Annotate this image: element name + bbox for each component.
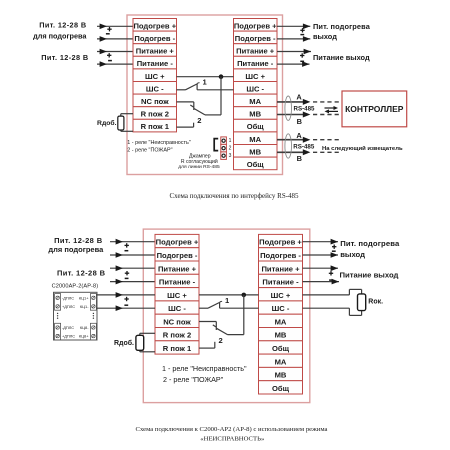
svg-text:Общ: Общ (272, 384, 290, 393)
svg-text:Питание +: Питание + (136, 47, 175, 56)
svg-text:Общ: Общ (272, 344, 290, 353)
wire AR2 to ШС+ (bottom) (96, 294, 155, 296)
svg-text:Подогрев +: Подогрев + (156, 238, 199, 247)
svg-text:Общ: Общ (247, 160, 265, 169)
input wire: heater power - (bottom) (110, 254, 155, 256)
twisted pair loop 2 (285, 134, 292, 158)
svg-text:Схема подключения по интерфейс: Схема подключения по интерфейсу RS-485 (169, 192, 299, 200)
RS-485 line B to controller (277, 114, 304, 116)
AR2 terminal screws row 2 (56, 305, 59, 308)
relay contact 1 (fault) blade and pin (bottom) (199, 307, 208, 309)
detector enclosure box (AR2 diagram) (143, 229, 309, 403)
AR2 terminal screws row 3 (56, 326, 59, 329)
AR2 terminal strip right upper (90, 294, 96, 311)
svg-text:Rдоб.: Rдоб. (97, 119, 117, 127)
svg-text:С2000АР-2(АР-8): С2000АР-2(АР-8) (52, 283, 99, 289)
svg-text:КЦ8-: КЦ8- (80, 325, 89, 330)
relay contact 2 (fire) fixed pin from NC пож (top) (177, 101, 194, 103)
svg-text:R пож 2: R пож 2 (141, 110, 169, 119)
svg-text:RS-485: RS-485 (293, 143, 315, 150)
svg-text:Подогрев +: Подогрев + (234, 21, 277, 30)
svg-text:2: 2 (218, 336, 222, 345)
input wire: power - (bottom) (110, 281, 155, 283)
AR2 terminal strip left lower (55, 323, 61, 340)
svg-text:МВ: МВ (275, 331, 287, 340)
svg-text:+ДПЛС: +ДПЛС (62, 304, 75, 309)
resistor Rдоб (bottom) (139, 333, 141, 335)
RS-485 line A to controller (277, 101, 304, 103)
wire AR2 to ШС- (bottom) (96, 307, 155, 309)
svg-text:B: B (297, 117, 302, 126)
RS-485 line B to next detector (277, 151, 304, 153)
output wire: power + (top right) (277, 51, 311, 53)
polarity marks heater output (top right) (300, 29, 304, 31)
controller box (342, 91, 407, 127)
svg-text:ШС -: ШС - (146, 84, 164, 93)
svg-text:ШС -: ШС - (272, 304, 290, 313)
terminal column right (RS-485 diagram) (234, 19, 278, 170)
svg-text:МВ: МВ (249, 147, 261, 156)
svg-text:Питание +: Питание + (158, 264, 197, 273)
svg-text:«НЕИСПРАВНОСТЬ»: «НЕИСПРАВНОСТЬ» (200, 435, 264, 442)
svg-text:МА: МА (249, 97, 261, 106)
output wire: power - (bottom right) (303, 281, 340, 283)
svg-text:выход: выход (340, 250, 365, 259)
svg-text:-ДПЛС: -ДПЛС (62, 295, 74, 300)
polarity marks power output (top right) (300, 55, 304, 57)
polarity marks power output (bottom right) (329, 272, 333, 274)
svg-text:Пит. 12-28 В: Пит. 12-28 В (54, 236, 103, 245)
svg-text:2 - реле "ПОЖАР": 2 - реле "ПОЖАР" (163, 375, 224, 384)
wire ШС+ internal (top) (177, 76, 234, 78)
svg-text:МА: МА (249, 135, 261, 144)
svg-text:для подогрева: для подогрева (48, 245, 104, 254)
svg-text:для подогрева: для подогрева (33, 31, 87, 40)
svg-text:R пож 1: R пож 1 (141, 122, 170, 131)
input wire: heater power + (bottom) (110, 241, 155, 243)
AR2 terminal screws row 4 (56, 334, 59, 337)
terminating resistor Rок wiring (303, 294, 350, 296)
output wire: heater power + (bottom right) (303, 241, 339, 243)
svg-text:R пож 2: R пож 2 (163, 331, 191, 340)
junction node on ШС+ (bottom) (242, 293, 247, 298)
relay contact 2 (fire) fixed pin from NC пож (bottom) (199, 321, 216, 323)
svg-text:2: 2 (229, 145, 232, 151)
svg-text:A: A (296, 131, 302, 140)
svg-text:3: 3 (229, 153, 232, 159)
wire ШС- to right column (top) (197, 89, 233, 91)
input wire: power + (top) (97, 51, 133, 53)
svg-text:МА: МА (275, 318, 287, 327)
svg-text:B: B (297, 154, 302, 163)
terminal column left (AR2 diagram) (155, 234, 199, 354)
svg-text:NC пож: NC пож (163, 318, 191, 327)
svg-text:Пит. подогрева: Пит. подогрева (313, 22, 371, 31)
terminal column right (AR2 diagram) (259, 234, 303, 394)
svg-text:NC пож: NC пож (141, 97, 169, 106)
svg-text:для линии RS-485: для линии RS-485 (178, 164, 220, 170)
terminal column left (RS-485 diagram) (133, 19, 177, 132)
wire junction to fire contact (bottom) (243, 295, 245, 335)
svg-text:Подогрев -: Подогрев - (235, 34, 276, 43)
svg-text:ШС +: ШС + (271, 291, 291, 300)
output wire: heater power + (top right) (277, 25, 310, 27)
svg-text:ШС +: ШС + (145, 72, 165, 81)
svg-text:Подогрев -: Подогрев - (157, 251, 198, 260)
jumper pin header 3 pins (top) (221, 137, 227, 145)
output wire: heater power - (top right) (277, 38, 310, 40)
svg-text:Подогрев +: Подогрев + (133, 21, 176, 30)
AR2 terminal screws row 1 (56, 296, 59, 299)
svg-text:Подогрев -: Подогрев - (134, 34, 175, 43)
polarity marks heater output (bottom right) (332, 246, 336, 248)
svg-text:Пит. 12-28 В: Пит. 12-28 В (39, 20, 86, 29)
svg-text:2 - реле "ПОЖАР": 2 - реле "ПОЖАР" (127, 147, 172, 153)
twisted pair loop 1 (285, 96, 292, 120)
output wire: heater power - (bottom right) (303, 254, 339, 256)
polarity marks power input (bottom) (125, 272, 129, 274)
svg-text:Rок.: Rок. (368, 299, 383, 306)
jumper bracket (top) (214, 139, 218, 151)
svg-text:Подогрев +: Подогрев + (259, 238, 302, 247)
wire ШС+ internal (bottom) (199, 294, 259, 296)
svg-text:КОНТРОЛЛЕР: КОНТРОЛЛЕР (345, 104, 404, 114)
relay contact 2 blade (top) (194, 108, 205, 115)
AR2 ellipsis dots (57, 313, 58, 314)
polarity marks loop (bottom) (124, 298, 128, 300)
svg-text:Питание -: Питание - (262, 278, 299, 287)
input wire: power - (top) (97, 63, 133, 65)
svg-text:Питание выход: Питание выход (340, 271, 399, 280)
AR2 terminal strip right lower (90, 323, 96, 340)
svg-text:R пож 1: R пож 1 (163, 344, 192, 353)
svg-text:Подогрев -: Подогрев - (260, 251, 301, 260)
svg-text:1: 1 (229, 138, 232, 144)
svg-text:МА: МА (275, 357, 287, 366)
detector enclosure box (RS-485 diagram) (127, 15, 283, 175)
svg-text:RS-485: RS-485 (294, 106, 316, 113)
svg-text:МВ: МВ (249, 110, 261, 119)
polarity marks power input (top) (107, 54, 111, 56)
svg-text:A: A (296, 93, 302, 102)
resistor Rок (358, 294, 366, 311)
input wire: heater power - (top) (97, 38, 133, 40)
output wire: power - (top right) (277, 63, 310, 65)
svg-text:На следующий извещатель: На следующий извещатель (322, 145, 403, 152)
svg-text:Rдоб.: Rдоб. (114, 339, 134, 347)
input wire: power + (bottom) (110, 267, 155, 269)
relay contact 2 blade (bottom) (216, 328, 227, 334)
svg-text:Питание +: Питание + (236, 47, 275, 56)
junction node on ШС+ (top) (219, 74, 224, 79)
svg-text:КЦ8+: КЦ8+ (79, 334, 89, 339)
svg-text:Пит. 12-28 В: Пит. 12-28 В (57, 269, 106, 278)
svg-text:Питание -: Питание - (137, 59, 174, 68)
RS-485 line A to next detector (277, 139, 304, 141)
svg-text:Питание -: Питание - (159, 278, 196, 287)
svg-text:выход: выход (313, 32, 337, 41)
svg-text:-ДПЛС: -ДПЛС (62, 325, 74, 330)
polarity marks heater input (top) (107, 28, 111, 30)
svg-text:Питание выход: Питание выход (313, 53, 370, 62)
svg-text:КЦ1+: КЦ1+ (79, 295, 89, 300)
input wire: heater power + (top) (97, 25, 133, 27)
svg-text:Питание +: Питание + (261, 264, 300, 273)
wire R пож 1 stub (top) (177, 126, 194, 128)
resistor Rдоб (top) (120, 114, 122, 116)
wire R пож 1 stub (bottom) (199, 347, 215, 349)
output wire: power + (bottom right) (303, 267, 339, 269)
AR2 terminal strip left upper (55, 294, 61, 311)
svg-text:ШС -: ШС - (168, 304, 186, 313)
polarity marks heater input (bottom) (125, 244, 129, 246)
data direction arrows (325, 107, 335, 109)
svg-text:2: 2 (197, 116, 201, 125)
svg-text:МВ: МВ (275, 371, 287, 380)
svg-text:ШС +: ШС + (167, 291, 187, 300)
svg-text:ШС -: ШС - (246, 84, 264, 93)
svg-text:+ДПЛС: +ДПЛС (62, 334, 75, 339)
svg-text:КЦ1-: КЦ1- (80, 304, 89, 309)
relay contact 1 (fault) blade and pin (top) (177, 89, 186, 91)
svg-text:R согласующий: R согласующий (181, 158, 218, 165)
wire ШС- to right column (bottom) (220, 307, 259, 309)
svg-text:Схема подключения к С2000-АР2: Схема подключения к С2000-АР2 (АР-8) с и… (135, 426, 327, 433)
svg-text:ШС +: ШС + (245, 72, 265, 81)
wire junction to fire contact (top) (220, 77, 222, 115)
svg-text:Пит. 12-28 В: Пит. 12-28 В (41, 53, 88, 62)
svg-text:Общ: Общ (247, 122, 265, 131)
svg-text:Пит. подогрева: Пит. подогрева (340, 239, 400, 248)
svg-text:1 - реле "Неисправность": 1 - реле "Неисправность" (127, 140, 190, 146)
svg-text:Питание -: Питание - (237, 59, 274, 68)
svg-text:1 - реле "Неисправность": 1 - реле "Неисправность" (162, 364, 247, 373)
